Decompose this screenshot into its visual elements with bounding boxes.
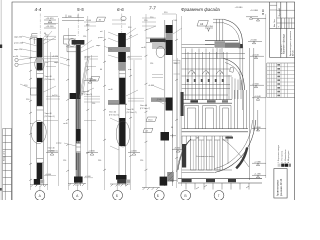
svg-text:+8.100: +8.100	[252, 54, 260, 56]
base band	[178, 178, 262, 183]
svg-text:Архитектурные: Архитектурные	[277, 179, 280, 196]
hatched zone below ledge	[152, 43, 165, 49]
facade left dim lines	[178, 14, 266, 186]
signature specks column	[277, 64, 280, 96]
svg-text:кирп: кирп	[96, 45, 100, 47]
svg-text:✓: ✓	[278, 26, 280, 29]
svg-text:(ГК Узел 5): (ГК Узел 5)	[45, 79, 55, 81]
mid black segment	[76, 129, 80, 141]
top dim cluster section 5-5	[81, 22, 96, 52]
svg-text:4-4: 4-4	[35, 7, 42, 12]
axis bubble G	[214, 191, 224, 201]
svg-text:h=250: h=250	[52, 95, 57, 97]
keystone	[230, 67, 234, 72]
svg-text:утепл: утепл	[98, 37, 104, 39]
svg-text:1.540: 1.540	[86, 20, 92, 22]
svg-text:2. Утеплитель: 2. Утеплитель	[281, 151, 283, 163]
lintel band dark segments	[182, 100, 232, 104]
top cornice outline	[64, 36, 76, 52]
head step outline	[32, 34, 38, 44]
top black blocks	[166, 25, 173, 33]
dimension ticks	[29, 38, 32, 181]
leader lines left	[104, 32, 118, 58]
svg-text:+6.640: +6.640	[254, 96, 262, 98]
svg-text:Г: Г	[218, 194, 220, 198]
svg-text:4. Штукатурка: 4. Штукатурка	[288, 150, 290, 163]
inner approval cells	[270, 2, 295, 29]
svg-text:+2.080: +2.080	[254, 161, 262, 163]
dimension ticks 7-7	[145, 29, 178, 171]
svg-text:+4.800: +4.800	[130, 151, 138, 153]
callout ellipse	[156, 46, 165, 57]
svg-text:120: 120	[83, 36, 86, 38]
svg-text:отм.: отм.	[128, 69, 132, 71]
top callout circle	[121, 16, 126, 20]
head dim cluster right	[44, 36, 56, 39]
corner dark block	[239, 44, 243, 48]
svg-text:7-7: 7-7	[149, 6, 156, 11]
svg-text:250: 250	[98, 160, 101, 162]
T-junction callout ellipse	[69, 38, 75, 46]
arc top horizontal	[213, 19, 224, 23]
base teeth	[186, 183, 249, 190]
wall black bar	[119, 78, 125, 104]
svg-text:Узел 40: Узел 40	[48, 148, 56, 150]
svg-text:+8.100: +8.100	[84, 57, 90, 59]
dimension ticks 6-6	[103, 35, 132, 171]
lintel lines in gap	[119, 71, 125, 78]
wall black bar	[76, 45, 80, 99]
ground hatch	[68, 184, 86, 186]
svg-text:А3: А3	[200, 22, 204, 26]
dimension chain lines	[69, 16, 92, 190]
node tag parallelogram	[146, 117, 157, 122]
svg-text:Узел 40: Узел 40	[45, 76, 53, 78]
base blocks	[116, 175, 127, 180]
lower hatched bar	[76, 99, 80, 177]
entablature band	[205, 41, 238, 45]
lintel lines lower gap	[37, 159, 44, 163]
svg-text:+11.880: +11.880	[235, 7, 244, 9]
wall face lines	[165, 20, 173, 186]
mid ledge	[151, 98, 166, 102]
svg-text:Узел: Узел	[148, 120, 153, 122]
mid flag 5-5 right	[84, 81, 96, 84]
top dim cluster section 4-4 right	[44, 17, 59, 45]
svg-text:5-5: 5-5	[77, 7, 84, 12]
axis bubble B	[157, 189, 159, 192]
svg-text:+0.000: +0.000	[85, 176, 92, 178]
dimension ticks 5-5	[66, 29, 89, 172]
arch tops row1	[188, 70, 223, 74]
edge tick mark lower	[0, 188, 2, 191]
svg-text:Взам. инв.: Взам. инв.	[4, 150, 6, 161]
svg-text:1.540: 1.540	[157, 99, 162, 101]
dimension chain lines	[146, 14, 180, 188]
side step box	[31, 88, 37, 95]
base blocks	[160, 177, 168, 186]
svg-text:св.40: св.40	[108, 89, 113, 91]
svg-text:ось: ось	[30, 123, 33, 125]
svg-text:Установить по месту: Установить по месту	[196, 156, 214, 158]
top dim cluster section 6-6	[112, 20, 138, 40]
base block	[34, 179, 40, 185]
svg-text:Узел 40: Узел 40	[45, 113, 53, 115]
svg-text:60: 60	[100, 69, 102, 71]
axis dash-dot line	[39, 14, 41, 39]
svg-text:+15.100: +15.100	[46, 26, 55, 28]
insulation diagonals	[79, 58, 88, 98]
svg-text:св.40: св.40	[141, 47, 146, 49]
right elevation flag	[86, 153, 98, 156]
svg-text:Фрагмент фасада: Фрагмент фасада	[283, 33, 286, 54]
svg-text:6-6: 6-6	[117, 7, 124, 12]
ground hatch	[110, 184, 130, 186]
top dim lines	[62, 15, 84, 21]
axis bubble V	[181, 191, 191, 201]
band lines left	[182, 44, 245, 58]
left pilaster dark bar	[181, 92, 184, 116]
svg-text:60: 60	[44, 33, 46, 35]
ledge band	[108, 100, 119, 104]
svg-text:Узел 40: Узел 40	[82, 91, 90, 93]
svg-text:120: 120	[150, 63, 153, 65]
axis dash-dot line	[77, 14, 79, 37]
leaders left of 6-6 mid	[110, 118, 119, 150]
gutter dimension clutter	[44, 56, 181, 120]
svg-text:250: 250	[174, 63, 177, 65]
svg-text:анкер: анкер	[56, 143, 62, 145]
window frames row2	[185, 106, 199, 130]
cornice dark band	[72, 40, 85, 45]
corner volute arcs	[215, 120, 256, 173]
extra annotation specks	[30, 33, 177, 162]
svg-text:+7.560: +7.560	[252, 83, 260, 85]
axis dash-dot line	[121, 14, 123, 34]
svg-text:+0.000: +0.000	[45, 174, 52, 176]
top elevation flags	[44, 20, 56, 28]
svg-text:АР-24: АР-24	[291, 50, 294, 56]
ground hatch	[30, 185, 48, 187]
callout ellipse	[31, 120, 46, 143]
node tag parallelogram near 6-6	[96, 17, 106, 21]
svg-text:+4.800: +4.800	[174, 148, 182, 150]
right elevation flag	[46, 153, 58, 156]
arch interior mullions	[229, 75, 241, 99]
left leader lines	[20, 36, 37, 88]
svg-text:кирп.120: кирп.120	[14, 49, 23, 51]
node tag A3	[197, 21, 208, 27]
right elevation flags column	[248, 19, 266, 178]
svg-text:+6.640: +6.640	[86, 79, 94, 81]
left margin stamp ladder table	[3, 129, 12, 201]
wall black bar segments	[37, 38, 43, 57]
svg-text:кирп.250: кирп.250	[14, 37, 23, 39]
svg-text:Формат А1: Формат А1	[278, 8, 281, 17]
lower windows	[182, 144, 186, 168]
swatch squares	[278, 164, 281, 167]
wall verticals below cornice	[217, 48, 222, 59]
capital dark ticks	[187, 79, 224, 82]
cornice top arc pair	[224, 20, 243, 49]
svg-text:(ГК Узел 5): (ГК Узел 5)	[82, 94, 92, 96]
wall face lines	[119, 33, 125, 186]
svg-text:+1.080: +1.080	[254, 174, 262, 176]
svg-text:+4.800: +4.800	[254, 127, 262, 129]
ledge block	[70, 93, 77, 99]
wall face lines	[37, 38, 44, 187]
callout ellipse small	[35, 57, 45, 71]
bottom small dims	[196, 185, 249, 189]
zero level mark	[44, 175, 56, 177]
dimension chain lines	[31, 18, 59, 190]
svg-text:(ГК Узел 5): (ГК Узел 5)	[109, 114, 119, 116]
leaders left of 7-7 mid	[154, 86, 164, 104]
lower black bar	[119, 118, 125, 146]
svg-text:М 30: М 30	[261, 9, 265, 15]
svg-text:Узел 30: Узел 30	[127, 109, 135, 111]
svg-text:Узел 40: Узел 40	[140, 105, 148, 107]
svg-text:+9.000: +9.000	[250, 40, 258, 42]
svg-text:250: 250	[92, 103, 95, 105]
svg-text:60: 60	[171, 127, 173, 129]
axis bubble A	[39, 186, 41, 191]
row2 band	[182, 129, 248, 132]
svg-text:180: 180	[196, 138, 199, 140]
svg-text:шт.20: шт.20	[13, 56, 19, 58]
svg-text:в осях А-Г: в осях А-Г	[280, 43, 283, 54]
axis bubble A	[76, 183, 78, 191]
svg-text:Узел 40: Узел 40	[109, 112, 117, 114]
base black block	[74, 177, 83, 183]
callout ellipse	[116, 121, 130, 147]
dimension chain lines	[105, 16, 134, 190]
svg-text:+4.800: +4.800	[48, 151, 56, 153]
svg-text:Изм. Лист: Изм. Лист	[274, 19, 276, 27]
node tag parallelogram 2	[143, 128, 153, 132]
right elevation flag	[172, 150, 184, 153]
top ledge band	[150, 39, 166, 42]
drawing frame	[12, 2, 295, 200]
svg-text:250: 250	[45, 62, 48, 64]
middle window mullions row1	[185, 49, 227, 101]
svg-text:Фрагмент фасада: Фрагмент фасада	[181, 7, 220, 12]
top dim cluster section 7-7	[142, 14, 182, 34]
leader lines left	[60, 57, 76, 146]
axis bubble B	[116, 182, 118, 190]
row1 extra horizontal	[182, 84, 230, 86]
node tag parallelogram	[90, 77, 100, 82]
mid black block 7-7	[161, 132, 170, 141]
right elevation flag	[128, 153, 140, 156]
title block outer lines	[270, 2, 295, 58]
svg-text:3. Железобетон: 3. Железобетон	[285, 149, 287, 163]
svg-text:(ГК Узел 7): (ГК Узел 7)	[140, 108, 150, 110]
edge tick mark	[0, 45, 2, 49]
svg-text:120: 120	[63, 160, 66, 162]
window gap in bar	[76, 143, 80, 153]
svg-text:св.40: св.40	[63, 123, 68, 125]
ground hatch	[142, 188, 160, 190]
svg-text:(ГК Узел 5): (ГК Узел 5)	[45, 116, 55, 118]
left volute arc	[178, 139, 191, 170]
svg-text:кирп.: кирп.	[54, 62, 59, 64]
svg-text:+15.620: +15.620	[46, 18, 55, 20]
svg-text:+4.800: +4.800	[88, 151, 96, 153]
row1 horizontals	[182, 69, 232, 95]
top black blocks	[118, 33, 126, 47]
paper edge	[0, 0, 2, 200]
svg-text:+10.880: +10.880	[250, 10, 259, 12]
right pilaster verticals	[240, 48, 258, 180]
svg-text:120: 120	[140, 160, 143, 162]
svg-text:1. Кирпичная кладка: 1. Кирпичная кладка	[278, 144, 280, 163]
wall face lines	[76, 44, 81, 186]
svg-text:(ГК Узел 7): (ГК Узел 7)	[127, 112, 137, 114]
svg-text:утепл.100: утепл.100	[14, 43, 24, 45]
svg-text:120: 120	[127, 57, 130, 59]
svg-text:решения. АР-24: решения. АР-24	[280, 178, 283, 196]
corner big arch arcs	[224, 59, 245, 91]
svg-text:+6.640: +6.640	[148, 85, 155, 87]
circled callout numbers	[15, 58, 18, 61]
cornice top verticals	[216, 19, 222, 41]
svg-text:+10.350: +10.350	[205, 26, 214, 28]
